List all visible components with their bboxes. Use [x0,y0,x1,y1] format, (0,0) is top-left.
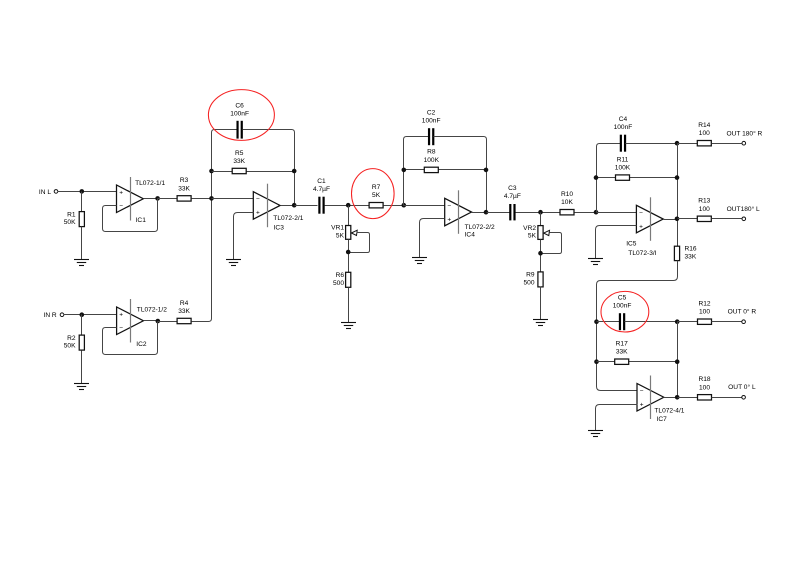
svg-text:OUT 0° L: OUT 0° L [728,383,756,391]
svg-text:−: − [119,203,123,210]
svg-text:5K: 5K [372,192,381,199]
resistor R16 [674,246,697,261]
ground IC5 + [588,259,603,265]
ground below R1 [74,260,89,266]
svg-text:−: − [256,196,260,203]
svg-text:50K: 50K [64,343,76,350]
wire C4 top left [600,143,621,145]
svg-text:R13: R13 [698,198,710,205]
wire R16 bottom to link [597,261,678,285]
op-amp IC1 [117,177,144,221]
svg-text:TL072-4/1: TL072-4/1 [654,407,684,414]
resistor R1 [64,211,85,226]
resistor R2 [64,335,85,350]
junction right rail / R17 [675,359,680,364]
wire IC2 feedback loop [103,322,158,355]
ground IC7 + [588,431,603,437]
wire stage2 right rail [486,140,488,213]
junction left rail / C5 [594,319,599,324]
wire stage3 left rail [597,144,600,213]
junction bus / IC3 input [209,196,214,201]
ground below R2 [74,384,89,390]
op-amp IC5 [636,197,663,241]
wire VR1 wiper [349,233,370,253]
resistor R11 [615,156,631,180]
svg-text:+: + [119,189,123,196]
highlight ellipse around C6 [208,90,274,141]
wire IC7 out to R18 [678,397,698,399]
svg-text:100K: 100K [615,165,631,172]
junction C1 / VR1 / R7 [346,203,351,208]
wire IC4 output [472,212,487,214]
terminal OUT 0 L [742,396,746,400]
resistor R4 [177,300,191,324]
ground below R9 [533,320,548,326]
capacitor C5 [613,294,632,330]
wire IC7 output [664,397,678,399]
wire VR2 bottom lead [540,240,542,273]
svg-text:R11: R11 [617,156,629,163]
wire IC1 out to R3 [158,198,178,200]
resistor R8 [424,149,440,173]
wire IC4 + to ground [420,219,445,258]
wire IC5 out to R13 [678,218,698,220]
svg-text:100nF: 100nF [613,303,632,310]
wire C2 top right [434,137,487,140]
svg-text:33K: 33K [233,158,245,165]
svg-text:500: 500 [333,280,344,287]
wire R14 to OUT 180 R [712,143,742,145]
terminal IN L [54,190,58,194]
terminal OUT 180 L [742,217,746,221]
wire R13 to OUT 180 L [712,218,742,220]
svg-text:TL072-1/2: TL072-1/2 [137,307,167,314]
wire C5 row to R12 [678,321,698,323]
resistor R6 [333,272,351,287]
svg-text:IC1: IC1 [136,217,147,224]
resistor R13 [697,198,711,222]
svg-text:+: + [256,210,260,217]
svg-text:R5: R5 [235,150,244,157]
svg-text:IN L: IN L [39,189,51,196]
wire IC3 output [281,205,295,207]
resistor R12 [698,301,712,325]
wire VR1 top lead [348,206,350,226]
svg-text:R7: R7 [372,184,381,191]
capacitor C3 [504,185,521,221]
op-amp IC2 [117,299,144,343]
svg-text:C1: C1 [317,178,326,185]
wire rail to IC4 - [404,205,445,207]
op-amp IC3 [253,184,280,228]
wire C5 row right [625,321,678,323]
wire R5 row [212,171,295,173]
wire IC4 out to C3 [487,212,510,214]
svg-text:4.7µF: 4.7µF [313,186,330,193]
svg-text:VR1: VR1 [331,225,344,232]
svg-text:OUT180° L: OUT180° L [727,205,760,213]
svg-text:R17: R17 [616,341,628,348]
resistor R3 [177,177,191,201]
svg-text:R18: R18 [698,376,710,383]
svg-text:TL072-2/1: TL072-2/1 [273,215,303,222]
resistor R7 [369,184,383,208]
wiper arrow VR2 [544,230,550,235]
svg-text:TL072-2/2: TL072-2/2 [465,224,495,231]
junction bus / R5 [209,169,214,174]
svg-text:IC3: IC3 [274,224,285,231]
svg-text:IC5: IC5 [626,241,637,248]
wire IC3 + to ground [234,213,254,260]
op-amp IC4 [445,190,472,234]
svg-text:IC2: IC2 [136,341,147,348]
svg-text:C5: C5 [618,294,627,301]
junction right rail / R5 [292,169,297,174]
junction VR2 bottom / wiper [538,251,543,256]
svg-text:C3: C3 [508,185,517,192]
junction IC3 out / right rail [292,203,297,208]
svg-text:+: + [640,402,644,409]
junction C4 / R14 row [675,141,680,146]
wire VR2 top lead [540,213,542,226]
junction right rail / R8 [484,168,489,173]
wire IC1 output [144,198,158,200]
wiper arrow VR1 [351,230,357,235]
svg-text:R3: R3 [180,177,189,184]
junction IC7 out / right rail [675,395,680,400]
capacitor C6 [230,102,249,138]
svg-text:100nF: 100nF [614,124,633,131]
svg-text:R2: R2 [67,335,76,342]
wire IC5 + to ground [596,226,637,259]
wire bus to IC3 - [212,198,254,200]
svg-text:−: − [640,388,644,395]
svg-text:C6: C6 [235,102,244,109]
svg-text:100: 100 [699,309,710,316]
wire R11 row [597,177,678,179]
potentiometer VR1 [331,225,351,240]
wire stage4 right rail [677,322,679,398]
svg-text:R4: R4 [180,300,189,307]
wire C1 to VR1 node [325,205,369,207]
wire IC3 out to C1 [295,205,318,207]
junction left rail / R11 [594,175,599,180]
wire C6 top right [243,130,295,133]
junction left rail / R17 [594,359,599,364]
wire R4 to bus riser [192,319,212,322]
wire C5 row left [597,321,620,323]
svg-text:OUT 0° R: OUT 0° R [728,307,757,315]
wire R18 to OUT 0 L [712,397,742,399]
wire IC2 out to R4 [158,321,178,323]
svg-text:5K: 5K [528,233,537,240]
wire stage2 left rail [404,137,407,206]
wire C2 top left [407,136,429,138]
wire R1 to ground [81,227,83,260]
wire IN L to IC1 + [58,191,117,193]
wire R3 to bus [192,198,212,200]
svg-text:TL072-1/1: TL072-1/1 [135,180,165,187]
ground IC3 + [226,260,241,266]
svg-text:100: 100 [699,130,710,137]
junction IC5 out / right rail [675,217,680,222]
wire R17 row [597,361,678,363]
svg-text:33K: 33K [685,253,697,260]
resistor R10 [560,191,574,215]
svg-text:TL072-3/I: TL072-3/I [628,250,656,257]
wire R1 top lead [81,192,83,212]
resistor R17 [615,341,629,365]
svg-text:100: 100 [699,384,710,391]
wire IC2 output [144,320,158,322]
svg-text:IN R: IN R [44,312,57,319]
wire R10 to stage3 rail [575,212,597,214]
svg-text:100nF: 100nF [230,111,249,118]
ground below R6 [341,323,356,329]
svg-text:R6: R6 [336,272,345,279]
junction left rail / R8 [402,168,407,173]
wire IC1 feedback loop [103,199,158,232]
op-amp IC7 [637,376,664,420]
svg-text:+: + [119,311,123,318]
wire summing bus [212,130,215,319]
resistor R18 [698,376,712,400]
highlight ellipse around R7 [352,169,395,219]
svg-text:VR2: VR2 [523,225,536,232]
svg-text:500: 500 [523,279,534,286]
resistor R9 [523,272,543,287]
svg-text:33K: 33K [178,185,190,192]
wire stage1 right rail [294,133,296,206]
terminal OUT 180 R [742,141,746,145]
svg-text:+: + [447,216,451,223]
wire stage3 right rail [677,144,679,247]
svg-text:R8: R8 [427,149,436,156]
wire rail to IC5 - [597,212,637,214]
capacitor C2 [422,109,441,145]
junction IC1 output [155,196,160,201]
wire R2 to ground [81,351,83,384]
wire VR1 bottom lead [348,240,350,273]
capacitor C4 [614,116,633,152]
svg-text:−: − [447,203,451,210]
svg-text:100K: 100K [424,157,440,164]
svg-text:+: + [639,223,643,230]
wire C4 row to R14 [678,143,698,145]
svg-text:R10: R10 [561,191,573,198]
wire IC7 + to ground [596,405,638,431]
junction R7 / stage2 left rail [402,203,407,208]
wire R8 row [404,169,487,171]
svg-text:100: 100 [699,206,710,213]
wire VR2 wiper [541,233,562,254]
svg-text:IC7: IC7 [657,416,668,423]
resistor R5 [232,150,246,174]
highlight ellipse around C5 [601,291,649,332]
junction IN R / R2 [80,312,85,317]
resistor R14 [697,122,711,146]
junction IN L / R1 [80,189,85,194]
terminal IN R [60,313,64,317]
wire IN R to IC2 + [64,314,117,316]
svg-text:R9: R9 [526,272,535,279]
svg-text:R12: R12 [698,301,710,308]
wire R2 top lead [81,315,83,336]
junction VR1 bottom / wiper [346,250,351,255]
wire stage4 left rail [597,285,638,391]
svg-text:4.7µF: 4.7µF [504,193,521,200]
svg-text:−: − [119,325,123,332]
ground IC4 + [412,258,427,264]
wire C3 to VR2 node [516,212,561,214]
junction C3 / VR2 / R10 [538,210,543,215]
potentiometer VR2 [523,225,543,240]
svg-text:5K: 5K [336,232,345,239]
junction right rail / R11 [675,175,680,180]
svg-text:OUT 180° R: OUT 180° R [726,129,762,137]
wire R9 to ground [540,287,542,320]
wire C6 top left [215,129,238,131]
junction IC4 out / right rail [484,210,489,215]
svg-text:10K: 10K [561,199,573,206]
svg-text:C2: C2 [427,109,436,116]
svg-text:R1: R1 [67,211,76,218]
wire R12 to OUT 0 R [712,321,742,323]
svg-text:C4: C4 [619,116,628,123]
capacitor C1 [313,178,330,214]
junction C5 / R12 row [675,319,680,324]
svg-text:100nF: 100nF [422,118,441,125]
svg-text:IC4: IC4 [465,232,476,239]
svg-text:−: − [639,210,643,217]
svg-text:50K: 50K [64,219,76,226]
wire R7 to stage2 rail [384,205,404,207]
svg-text:R14: R14 [698,122,710,129]
svg-text:R16: R16 [685,246,697,253]
terminal OUT 0 R [742,320,746,324]
junction R10 / stage3 left rail [594,210,599,215]
wire R6 to ground [348,288,350,323]
svg-text:33K: 33K [178,308,190,315]
wire IC5 output [664,219,678,221]
junction IC2 output [156,319,161,324]
wire C4 top right [626,143,678,145]
svg-text:33K: 33K [616,349,628,356]
